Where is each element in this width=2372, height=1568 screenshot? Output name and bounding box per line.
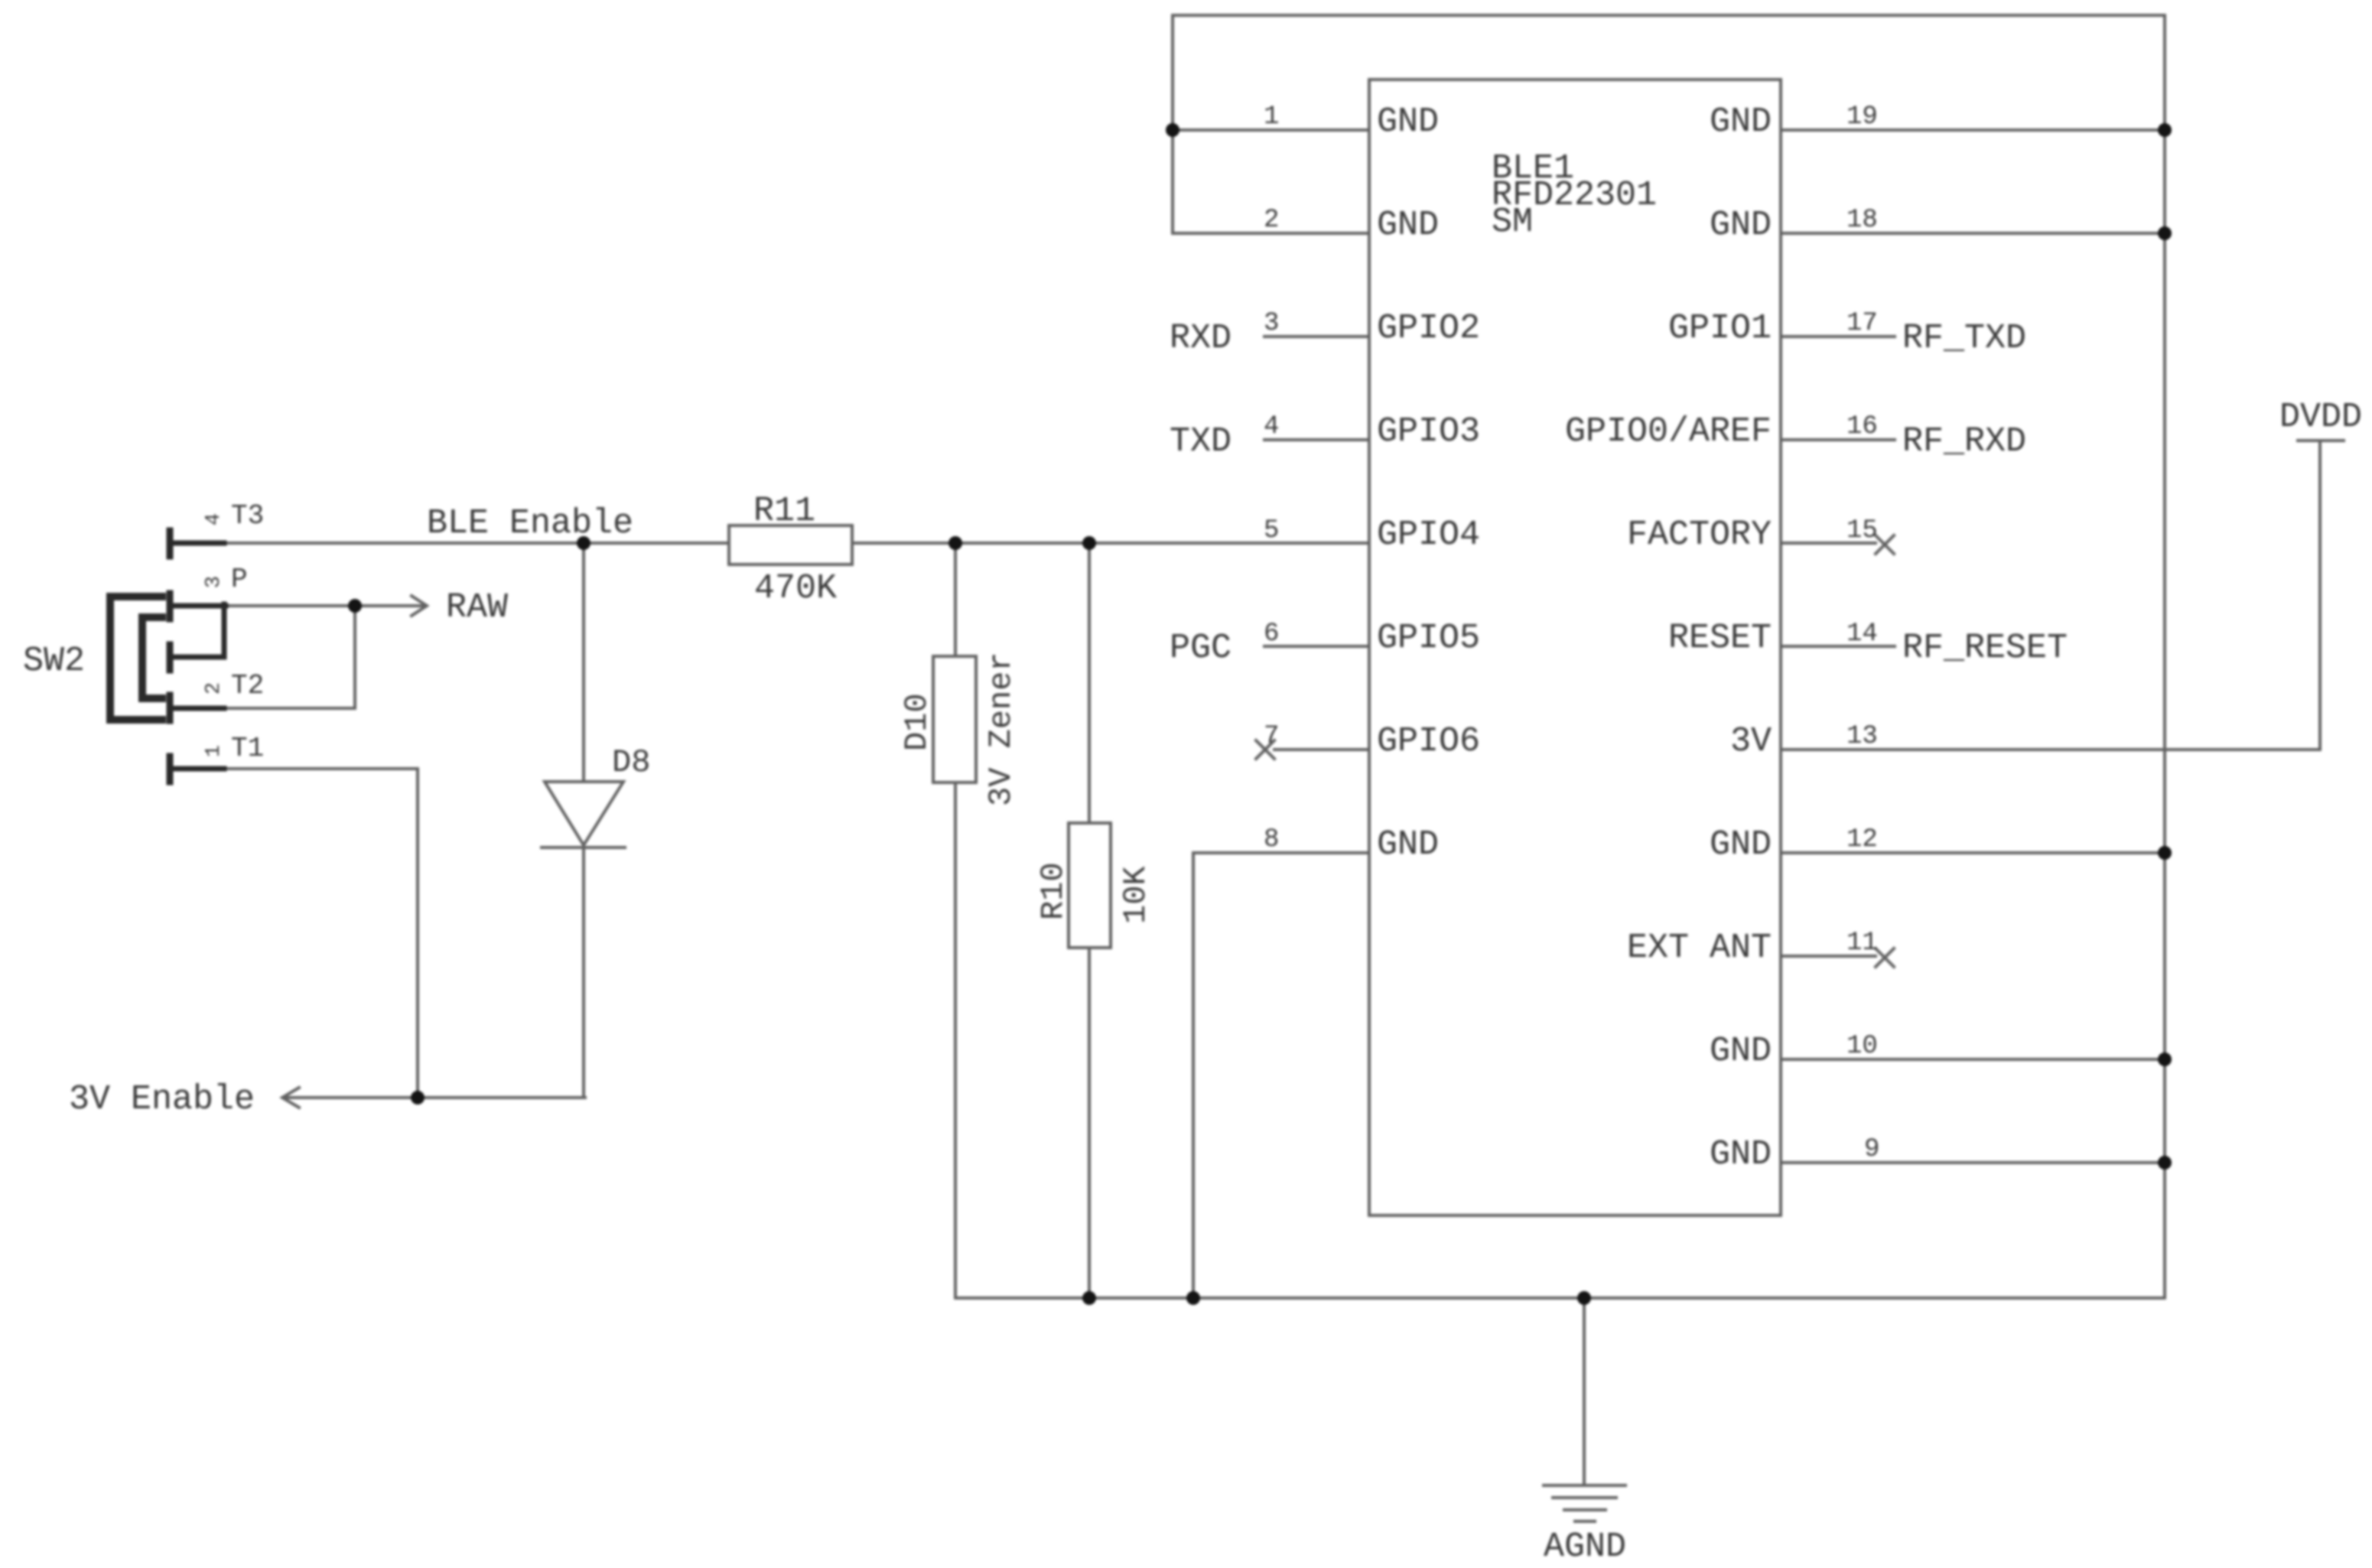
diode D8 — [582, 543, 585, 782]
svg-text:D10: D10 — [899, 693, 935, 751]
no-connect X pin 7 — [1256, 740, 1274, 759]
svg-text:16: 16 — [1847, 412, 1878, 441]
zener diode D10 — [954, 543, 957, 656]
svg-text:3: 3 — [203, 576, 226, 588]
wire RAW arrow — [355, 604, 425, 607]
switch pin T3 — [167, 531, 174, 556]
wire pin 2 — [1173, 232, 1369, 235]
svg-text:RF_TXD: RF_TXD — [1902, 319, 2026, 358]
svg-text:SM: SM — [1492, 203, 1533, 242]
svg-text:GND: GND — [1377, 825, 1439, 864]
svg-text:7: 7 — [1264, 722, 1279, 751]
svg-text:6: 6 — [1264, 620, 1279, 649]
svg-text:470K: 470K — [754, 569, 837, 608]
svg-text:T3: T3 — [231, 500, 264, 532]
svg-text:GPIO0/AREF: GPIO0/AREF — [1565, 412, 1772, 451]
wire pin 3 RXD — [1264, 335, 1369, 338]
svg-text:GND: GND — [1710, 1135, 1772, 1174]
wire pin 8 GND to bottom bus — [1193, 853, 1369, 1298]
resistor R10 10K — [1088, 543, 1091, 823]
svg-text:GND: GND — [1377, 102, 1439, 142]
wire pin 6 PGC — [1264, 645, 1369, 648]
wire top bus rectangle — [1173, 15, 2165, 1298]
switch pin T2 — [167, 695, 174, 721]
no-connect X pin 11 — [1876, 948, 1894, 967]
svg-text:DVDD: DVDD — [2279, 398, 2362, 437]
svg-text:AGND: AGND — [1544, 1527, 1626, 1566]
svg-text:GPIO1: GPIO1 — [1668, 309, 1772, 348]
svg-text:GND: GND — [1710, 825, 1772, 864]
svg-text:SW2: SW2 — [23, 642, 85, 681]
svg-text:4: 4 — [203, 513, 226, 525]
svg-text:PGC: PGC — [1170, 629, 1232, 668]
svg-text:P: P — [231, 564, 248, 595]
resistor R11 470K — [729, 525, 852, 564]
wire pin 11 EXT ANT — [1781, 955, 1876, 958]
svg-text:T1: T1 — [231, 733, 264, 764]
svg-text:GPIO4: GPIO4 — [1377, 516, 1480, 555]
wire RAW net from P — [224, 604, 355, 607]
svg-text:GND: GND — [1710, 206, 1772, 245]
svg-text:FACTORY: FACTORY — [1627, 516, 1772, 555]
power DVDD symbol — [2318, 441, 2322, 750]
svg-text:3V: 3V — [1730, 722, 1772, 761]
svg-text:14: 14 — [1847, 620, 1878, 649]
svg-text:GPIO6: GPIO6 — [1377, 722, 1480, 761]
svg-text:2: 2 — [1264, 206, 1279, 235]
svg-text:GPIO5: GPIO5 — [1377, 619, 1480, 658]
svg-text:RXD: RXD — [1170, 319, 1232, 358]
svg-text:R10: R10 — [1035, 862, 1072, 920]
wire pin 17 RF_TXD — [1781, 335, 1895, 338]
label IC pin names right — [1565, 102, 1772, 1174]
svg-text:15: 15 — [1847, 516, 1878, 545]
wire T2 return — [224, 606, 355, 708]
svg-text:3: 3 — [1264, 309, 1279, 338]
svg-text:RF_RESET: RF_RESET — [1902, 629, 2068, 668]
svg-text:11: 11 — [1847, 929, 1878, 958]
switch pin P pole — [167, 594, 174, 619]
wire pin 19 — [1781, 128, 2165, 132]
wire T1 down — [224, 769, 418, 1098]
svg-text:8: 8 — [1264, 825, 1279, 854]
IC BLE1 RFD22301 body — [1369, 80, 1781, 1215]
label pin numbers — [1264, 102, 1879, 1164]
svg-text:T2: T2 — [231, 670, 264, 701]
no-connect X pin 15 — [1876, 535, 1894, 554]
wire pin 18 — [1781, 232, 2165, 235]
svg-text:R11: R11 — [753, 492, 815, 531]
svg-text:EXT ANT: EXT ANT — [1627, 929, 1772, 968]
wire pin 15 FACTORY — [1781, 542, 1876, 545]
svg-text:GND: GND — [1710, 1032, 1772, 1071]
svg-text:2: 2 — [203, 682, 226, 695]
label switch pin numbers rotated — [203, 513, 226, 757]
svg-text:RAW: RAW — [446, 588, 508, 627]
wire pin 14 RF_RESET — [1781, 645, 1895, 648]
svg-text:12: 12 — [1847, 825, 1878, 854]
svg-text:1: 1 — [1264, 102, 1279, 132]
svg-text:GND: GND — [1710, 102, 1772, 142]
wire pin 12 — [1781, 851, 2165, 854]
svg-text:13: 13 — [1847, 722, 1878, 751]
svg-text:1: 1 — [203, 745, 226, 757]
wire 3V Enable with arrow — [284, 1096, 585, 1099]
wire BLE Enable net — [224, 542, 729, 545]
wire pin 1 — [1173, 128, 1369, 132]
wire pin 7 — [1274, 748, 1369, 751]
svg-text:10K: 10K — [1118, 866, 1154, 924]
svg-text:GND: GND — [1377, 206, 1439, 245]
svg-text:19: 19 — [1847, 102, 1878, 132]
wire pin 9 — [1781, 1161, 2165, 1164]
svg-text:9: 9 — [1864, 1135, 1879, 1164]
wire pin 16 RF_RXD — [1781, 438, 1895, 441]
svg-text:TXD: TXD — [1170, 422, 1232, 461]
svg-text:17: 17 — [1847, 309, 1878, 338]
svg-text:RESET: RESET — [1668, 619, 1772, 658]
svg-text:3V Zener: 3V Zener — [983, 652, 1020, 806]
switch SW2 body — [110, 531, 226, 782]
svg-text:18: 18 — [1847, 206, 1878, 235]
ground AGND symbol — [1583, 1298, 1586, 1485]
svg-text:3V Enable: 3V Enable — [69, 1080, 255, 1119]
svg-text:BLE Enable: BLE Enable — [427, 504, 633, 543]
svg-text:D8: D8 — [612, 744, 650, 781]
label net names — [1170, 319, 1232, 668]
wire bottom ground bus — [955, 1296, 2165, 1300]
wire pin 13 3V to DVDD — [1781, 748, 2320, 751]
wire pin 4 TXD — [1264, 438, 1369, 441]
svg-text:RF_RXD: RF_RXD — [1902, 422, 2026, 461]
label switch pin names — [231, 500, 264, 764]
svg-text:GPIO2: GPIO2 — [1377, 309, 1480, 348]
wire pin 10 — [1781, 1058, 2165, 1061]
switch pin T1 — [167, 756, 174, 782]
svg-text:5: 5 — [1264, 516, 1279, 545]
svg-text:GPIO3: GPIO3 — [1377, 412, 1480, 451]
svg-text:10: 10 — [1847, 1032, 1878, 1061]
svg-text:4: 4 — [1264, 412, 1279, 441]
